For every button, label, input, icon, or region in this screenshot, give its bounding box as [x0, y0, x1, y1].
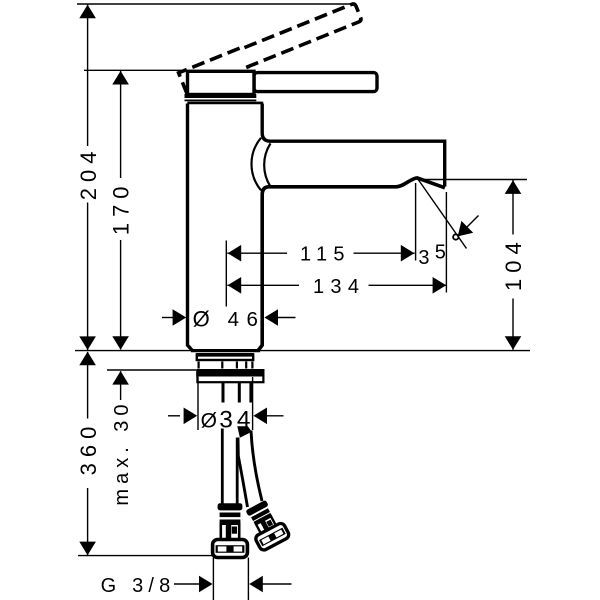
svg-text:360: 360	[76, 421, 101, 476]
35 deg arrow	[461, 216, 479, 234]
dim 104 arrows	[505, 180, 522, 349]
shank and hose lines between flange and nut	[199, 362, 253, 369]
hose end reference line (360 bottom)	[78, 555, 213, 557]
supply hose 1 vertical	[222, 429, 237, 504]
svg-text:G 3/8: G 3/8	[101, 575, 176, 597]
svg-text:115: 115	[300, 244, 351, 266]
svg-text:104: 104	[501, 236, 526, 291]
dim D34 arrows and tails	[168, 415, 180, 417]
hose 2 elbow	[237, 426, 252, 438]
countertop line	[75, 350, 530, 352]
dim 115 extension line left (body centerline)	[225, 241, 227, 307]
faucet body right edge and spout top	[262, 104, 445, 187]
dim 204 arrows	[79, 5, 96, 350]
dim 115 line	[227, 252, 414, 254]
max 30 reference line	[107, 369, 196, 371]
dim 115 extension line right (spout tip)	[415, 183, 417, 261]
dim 115 arrows	[228, 245, 415, 262]
svg-text:3: 3	[418, 247, 429, 269]
svg-text:5: 5	[435, 242, 446, 264]
mounting nut	[196, 369, 264, 382]
dim 134 arrows	[228, 277, 447, 294]
svg-text:46: 46	[228, 308, 266, 331]
dim G38 extension lines	[213, 558, 248, 600]
dim 134 extension line right (spout end)	[445, 192, 447, 293]
dim 204 line	[87, 4, 89, 350]
base flange plate	[197, 354, 253, 360]
faucet handle lever bar	[254, 73, 377, 92]
svg-text:34: 34	[219, 406, 254, 433]
faucet body left edge	[188, 104, 193, 351]
dim 170 line	[120, 70, 122, 349]
dim 170 arrows	[112, 71, 129, 350]
ball joint inner arc	[264, 143, 270, 186]
svg-text:max. 30: max. 30	[111, 399, 133, 505]
handle top reference line (170)	[84, 69, 187, 71]
ball joint outer arc	[251, 138, 261, 191]
body bottom edge	[191, 349, 260, 352]
faucet handle cap	[188, 71, 255, 94]
hose 1 connector (vertical)	[213, 503, 248, 557]
svg-text:170: 170	[108, 180, 133, 235]
svg-text:Ø: Ø	[193, 306, 210, 331]
supply hose 2 diagonal edges	[238, 431, 262, 508]
dim 360 line	[87, 352, 89, 556]
shank tube stubs below nut	[223, 383, 251, 403]
spout outlet reference line (104 top)	[418, 179, 528, 181]
hose 2 connector (diagonal)	[241, 498, 290, 552]
svg-text:204: 204	[76, 146, 101, 201]
svg-text:134: 134	[313, 276, 365, 298]
svg-text:Ø: Ø	[201, 410, 217, 433]
dim 360 arrows	[79, 352, 96, 556]
handle base ring	[185, 94, 257, 98]
dim D34 extension lines	[198, 377, 253, 430]
dim 134 line	[227, 284, 446, 286]
top reference line (handle raised tip)	[77, 3, 352, 5]
dim max30 line and arrow	[120, 371, 122, 400]
dim G38 arrows and tails	[174, 583, 199, 585]
dim D46 arrows and tails	[162, 317, 173, 319]
spout bottom edge with aerator peak	[258, 178, 445, 351]
35 deg leader line	[418, 179, 467, 249]
dim 104 line	[512, 180, 514, 350]
dashed raised handle outline	[179, 2, 363, 94]
